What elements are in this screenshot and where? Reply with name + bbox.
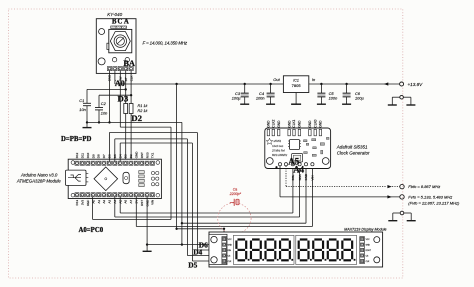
wire D4 to display CLK bbox=[192, 260, 222, 262]
svg-text:IC1: IC1 bbox=[293, 78, 299, 82]
si5351 output slot GND bbox=[298, 129, 300, 136]
svg-text:GND: GND bbox=[228, 245, 233, 247]
Arduino bottom pin RST bbox=[140, 193, 144, 197]
schematic sheet dashed border bbox=[8, 9, 402, 278]
Arduino top pin RX0 bbox=[145, 161, 149, 165]
capacitor C1 10n bbox=[86, 89, 88, 103]
svg-text:R2 1k: R2 1k bbox=[138, 109, 149, 113]
wire 7805 In to +13.8V terminal bbox=[309, 83, 400, 85]
display left hole bottom bbox=[211, 257, 217, 263]
si5351 IC bbox=[290, 140, 300, 150]
junction dot rail/C4 bbox=[269, 83, 271, 85]
svg-text:3V3: 3V3 bbox=[81, 199, 85, 205]
wire encoder CLK down bbox=[130, 71, 132, 104]
wire D5 to display CS bbox=[187, 255, 222, 257]
junction dot rail/C5 bbox=[320, 83, 322, 85]
annotation capacitor Ca (red) bbox=[230, 201, 234, 203]
wire Arduino D5 up bbox=[114, 139, 116, 161]
wire GND to display GND pin bbox=[147, 244, 222, 246]
svg-text:D5: D5 bbox=[188, 260, 197, 269]
display digit 3 bbox=[267, 238, 275, 240]
Arduino Nano module body bbox=[68, 159, 161, 198]
svg-text:C2: C2 bbox=[101, 101, 107, 106]
svg-text:A6: A6 bbox=[124, 199, 128, 203]
display digit 2 bbox=[252, 238, 260, 240]
display right header outline bbox=[360, 237, 365, 264]
si5351 star logo bbox=[266, 138, 273, 144]
capacitor C3 100&#181; bbox=[244, 84, 246, 93]
svg-text:REF: REF bbox=[86, 200, 90, 206]
Arduino bottom pin REF bbox=[86, 193, 90, 197]
wire Arduino D4 up bbox=[119, 143, 121, 161]
wire Fvfo output bbox=[280, 196, 400, 198]
Arduino LEDs / resistors block bbox=[139, 171, 144, 174]
MAX7219 display module board bbox=[209, 232, 383, 267]
wire A5 to SCL bbox=[120, 212, 293, 214]
display digit group 1 frame bbox=[234, 235, 295, 264]
wire R2 to Arduino D2 bbox=[130, 114, 132, 161]
display digit 6 bbox=[314, 238, 322, 240]
display output pin VCC bbox=[361, 237, 364, 240]
display digit 8 bbox=[343, 238, 351, 240]
capacitor C6 100&#181; bbox=[346, 84, 348, 93]
svg-text:Ca: Ca bbox=[233, 187, 238, 191]
Arduino bottom pin A2 bbox=[102, 193, 106, 197]
svg-text:8kHz-160MHz: 8kHz-160MHz bbox=[272, 154, 288, 157]
wire Arduino A0 down bbox=[92, 197, 94, 219]
ground of 7805 bbox=[295, 93, 297, 105]
display digit 5 bbox=[300, 238, 308, 240]
Arduino top pin TX1 bbox=[150, 161, 154, 165]
terminal Fvfo bbox=[400, 195, 404, 199]
display output pin GND bbox=[361, 243, 364, 246]
Arduino mounting hole bbox=[71, 161, 75, 165]
wire A4 to SDA bbox=[115, 216, 300, 218]
svg-text:D11: D11 bbox=[81, 153, 85, 159]
capacitor C2 10n bbox=[98, 95, 100, 107]
wire Arduino A5 down bbox=[119, 197, 121, 213]
si5351 output slot GND bbox=[319, 129, 321, 136]
capacitor C4 100n bbox=[270, 84, 272, 93]
svg-text:100µ: 100µ bbox=[232, 95, 241, 100]
si5351 bottom pad SDA bbox=[298, 163, 301, 166]
display input pin DIN bbox=[223, 248, 226, 251]
Arduino top pin D5 bbox=[113, 161, 117, 165]
arrowhead Fvfo bbox=[387, 195, 392, 198]
svg-text:D9: D9 bbox=[91, 154, 95, 158]
svg-text:100µ: 100µ bbox=[355, 95, 364, 100]
encoder pin GND bbox=[107, 67, 111, 71]
si5351 output slot GND bbox=[278, 129, 280, 136]
svg-text:CLK0: CLK0 bbox=[313, 119, 317, 127]
encoder pin CLK bbox=[129, 67, 133, 71]
Arduino top pin D11 bbox=[80, 161, 84, 165]
svg-text:SDA: SDA bbox=[298, 174, 302, 180]
rotary encoder shaft outer bbox=[114, 35, 126, 47]
Arduino bottom pin A6 bbox=[123, 193, 127, 197]
wire A0 net down bbox=[170, 127, 172, 219]
si5351 mounting hole left bbox=[266, 158, 273, 165]
wire D6 right bbox=[109, 132, 197, 134]
wire 5V branch down bbox=[176, 84, 178, 229]
svg-text:GND: GND bbox=[298, 120, 302, 128]
si5351 output slot GND bbox=[267, 129, 269, 136]
svg-text:RX0: RX0 bbox=[145, 152, 149, 158]
svg-text:C: C bbox=[117, 18, 122, 25]
display input pin GND bbox=[223, 243, 226, 246]
Arduino bottom pin A7 bbox=[129, 193, 133, 197]
junction dot GND/si5351-gnd bbox=[181, 222, 183, 224]
junction dot Arduino GND bbox=[146, 243, 148, 245]
svg-text:D12: D12 bbox=[75, 152, 79, 158]
Arduino bottom pin A4 bbox=[113, 193, 117, 197]
svg-text:GND: GND bbox=[366, 245, 371, 247]
Arduino top pin D6 bbox=[107, 161, 111, 165]
svg-text:D2: D2 bbox=[131, 113, 142, 123]
wire CLK2 output down (dashed) bbox=[285, 166, 287, 187]
svg-text:CLK1: CLK1 bbox=[292, 119, 296, 127]
svg-text:100n: 100n bbox=[329, 95, 338, 100]
wire SW right (A0 net) bbox=[120, 126, 171, 128]
svg-text:RST: RST bbox=[140, 152, 144, 158]
svg-text:25 MHz Ref: 25 MHz Ref bbox=[271, 150, 285, 153]
wire D5 right bbox=[115, 138, 188, 140]
wire A0 to SW net bbox=[93, 218, 172, 220]
Arduino bottom pin VIN bbox=[150, 193, 154, 197]
ground of C4 bbox=[270, 101, 272, 105]
junction dot GND/display-gnd bbox=[181, 243, 183, 245]
ground of Arduino GND bbox=[146, 245, 148, 252]
svg-text:GND: GND bbox=[134, 151, 138, 159]
display input header outline bbox=[222, 237, 227, 264]
display right hole top bbox=[374, 237, 380, 243]
junction dot rail/C6 bbox=[345, 83, 347, 85]
Arduino top pin D2 bbox=[129, 161, 133, 165]
rotary encoder side tab bbox=[107, 43, 109, 49]
rotary encoder hex nut bbox=[110, 32, 130, 51]
svg-text:VIN: VIN bbox=[311, 175, 315, 180]
Arduino top pin D10 bbox=[86, 161, 90, 165]
display right hole bottom bbox=[374, 257, 380, 263]
si5351 crystal bbox=[292, 154, 303, 163]
Arduino mounting hole bbox=[156, 193, 160, 197]
Arduino USB connector bbox=[66, 170, 87, 185]
encoder mounting hole lower bbox=[98, 58, 105, 65]
si5351 output slot CLK1 bbox=[293, 129, 295, 136]
wire 5V to VIN bbox=[136, 226, 312, 228]
wire GND rail down at x=181.9 bbox=[181, 122, 183, 244]
display left hole top bbox=[211, 236, 217, 242]
encoder mounting hole upper bbox=[99, 29, 105, 35]
Arduino MCU chip (diamond) bbox=[94, 167, 118, 191]
svg-text:D13: D13 bbox=[75, 199, 79, 205]
svg-text:CLK2: CLK2 bbox=[272, 119, 276, 127]
svg-text:Out: Out bbox=[273, 77, 280, 82]
encoder switch contact right bbox=[125, 58, 129, 62]
junction dot GND rail / encoder GND bbox=[108, 121, 110, 123]
svg-text:D10: D10 bbox=[86, 152, 90, 158]
svg-text:TX1: TX1 bbox=[151, 152, 155, 158]
Arduino top pin D3 bbox=[123, 161, 127, 165]
svg-text:SCL: SCL bbox=[291, 174, 295, 180]
Arduino top pin D7 bbox=[102, 161, 106, 165]
terminal +13.8V bbox=[400, 82, 404, 86]
display digit 1 bbox=[238, 238, 246, 240]
si5351 output slot CLK0 bbox=[314, 129, 316, 136]
svg-text:DOUT: DOUT bbox=[366, 250, 372, 252]
svg-text:100n: 100n bbox=[256, 95, 265, 100]
svg-text:+13.8V: +13.8V bbox=[408, 82, 424, 87]
si5351 bottom pad 1 bbox=[284, 163, 287, 166]
Arduino top pin GND bbox=[134, 161, 138, 165]
svg-text:Adafruit Si5351: Adafruit Si5351 bbox=[336, 144, 368, 149]
svg-text:ATMEGA328P Module: ATMEGA328P Module bbox=[16, 179, 61, 184]
svg-text:VCC: VCC bbox=[228, 239, 233, 241]
svg-text:10n: 10n bbox=[101, 111, 108, 116]
ground of encoder rail bbox=[86, 122, 88, 127]
wire Arduino GND down bbox=[146, 197, 148, 245]
wire CLK0 output down bbox=[279, 166, 281, 197]
wire R1 to Arduino D3 bbox=[125, 114, 127, 161]
svg-text:KY-040: KY-040 bbox=[107, 12, 122, 17]
wire SCL up to Si5351 bbox=[292, 166, 294, 213]
wire VIN up to Si5351 bbox=[311, 166, 313, 227]
encoder solder pads B C A (hatched) bbox=[111, 26, 127, 29]
svg-text:D3: D3 bbox=[124, 154, 128, 158]
svg-text:Clock Gen: Clock Gen bbox=[272, 145, 284, 148]
svg-text:A4: A4 bbox=[293, 165, 304, 175]
Arduino bottom pin GND bbox=[145, 193, 149, 197]
ground of C3 bbox=[244, 101, 246, 105]
svg-text:GND: GND bbox=[267, 120, 271, 128]
svg-text:Fvfo = 5.133, 5.483 MHz: Fvfo = 5.133, 5.483 MHz bbox=[408, 194, 452, 199]
Arduino top pin RST bbox=[140, 161, 144, 165]
svg-text:Fbfo = 8.867 MHz: Fbfo = 8.867 MHz bbox=[408, 184, 440, 189]
display digit 7 bbox=[329, 238, 337, 240]
Arduino top pin D12 bbox=[75, 161, 79, 165]
Arduino bottom pin A0 bbox=[91, 193, 95, 197]
resistor R2 1k bbox=[129, 104, 133, 114]
wire down to display VCC bbox=[223, 229, 225, 239]
encoder pin SW bbox=[118, 67, 122, 71]
svg-text:si5351: si5351 bbox=[274, 139, 282, 143]
Arduino bottom pin A5 bbox=[118, 193, 122, 197]
si5351 mounting hole right bbox=[322, 158, 329, 165]
junction dot rail/C3 bbox=[244, 83, 246, 85]
display left connector block bbox=[209, 234, 227, 264]
junction dot display VCC branch bbox=[223, 228, 225, 230]
wire Arduino 5V down bbox=[135, 197, 137, 226]
wire Arduino D6 up bbox=[108, 133, 110, 161]
svg-text:GND: GND bbox=[304, 173, 308, 181]
display output pin DOUT bbox=[361, 248, 364, 251]
arrowhead on +13.8V feed bbox=[384, 82, 389, 85]
svg-text:D2: D2 bbox=[129, 154, 133, 158]
svg-text:A0: A0 bbox=[115, 79, 125, 88]
si5351 bottom pad VIN bbox=[311, 163, 314, 166]
wire 5V branch to VCC bbox=[177, 228, 224, 230]
svg-text:GND: GND bbox=[319, 120, 323, 128]
encoder switch contact left bbox=[112, 58, 116, 62]
Arduino bottom pin 5V bbox=[134, 193, 138, 197]
si5351 output slot GND bbox=[288, 129, 290, 136]
svg-text:C1: C1 bbox=[79, 98, 84, 103]
svg-text:VCC: VCC bbox=[366, 239, 371, 241]
svg-text:10n: 10n bbox=[79, 107, 86, 112]
Arduino crystal bbox=[123, 172, 129, 183]
display digit group 2 frame bbox=[296, 235, 357, 264]
rotary encoder body square bbox=[109, 29, 132, 52]
Arduino bottom pin 3V3 bbox=[80, 193, 84, 197]
svg-text:RST: RST bbox=[140, 200, 144, 206]
junction dot 5V rail branch bbox=[175, 83, 177, 85]
wire D5 down bbox=[186, 139, 188, 256]
rotary encoder shaft flat bbox=[117, 38, 124, 45]
svg-text:D7: D7 bbox=[102, 154, 106, 158]
wire D6 down bbox=[196, 133, 198, 251]
wire SDA up to Si5351 bbox=[299, 166, 301, 217]
Arduino bottom pin A3 bbox=[107, 193, 111, 197]
encoder pin + bbox=[113, 67, 117, 71]
wire encoder + pin down to 5V rail bbox=[114, 71, 116, 84]
svg-text:(Fvfo = 22.867, 23.217 MHz): (Fvfo = 22.867, 23.217 MHz) bbox=[408, 201, 460, 206]
Adafruit Si5351 board bbox=[265, 128, 331, 169]
ground of C5 bbox=[320, 101, 322, 105]
junction dot C1/gnd rail bbox=[86, 121, 88, 123]
wire Arduino A4 down bbox=[114, 197, 116, 217]
svg-text:D4: D4 bbox=[193, 247, 202, 256]
junction dot 5V branch corner bbox=[175, 228, 177, 230]
svg-text:D8: D8 bbox=[97, 154, 101, 158]
Arduino top pin D8 bbox=[97, 161, 101, 165]
rotary encoder module KY-040 board bbox=[96, 19, 136, 74]
junction dot CLK/C2 bbox=[130, 94, 132, 96]
voltage regulator IC1 7805 body bbox=[283, 76, 308, 93]
display input pin CS bbox=[223, 254, 226, 257]
wire encoder GND pin down bbox=[109, 71, 111, 123]
capacitor C5 100n bbox=[320, 84, 322, 93]
svg-text:A: A bbox=[124, 18, 129, 25]
wire encoder SW down bbox=[119, 71, 121, 127]
arrowhead Fbfo bbox=[387, 185, 392, 188]
si5351 bottom pad GND bbox=[304, 163, 307, 166]
svg-text:2200p*: 2200p* bbox=[229, 192, 242, 196]
svg-text:B: B bbox=[112, 18, 117, 25]
svg-text:A0: A0 bbox=[91, 199, 95, 203]
wire si5351 GND up bbox=[305, 166, 307, 224]
ground of C6 bbox=[346, 101, 348, 105]
si5351 passives bbox=[304, 140, 308, 142]
display output pin CS bbox=[361, 254, 364, 257]
encoder pin DT bbox=[124, 67, 128, 71]
annotation red dashed circle bbox=[218, 203, 251, 234]
Arduino top pin D4 bbox=[118, 161, 122, 165]
wire D4 right bbox=[120, 142, 192, 144]
svg-text:R1 1k: R1 1k bbox=[138, 104, 149, 108]
svg-text:MAX7219 Display Module: MAX7219 Display Module bbox=[344, 227, 386, 231]
wire Fbfo output (dashed) bbox=[286, 186, 386, 188]
si5351 bottom pad SCL bbox=[291, 163, 294, 166]
junction dot DT/C1 bbox=[125, 88, 127, 90]
chassis ground connector at +13.8V input bbox=[400, 95, 404, 99]
svg-text:A0=PC0: A0=PC0 bbox=[79, 227, 104, 234]
display input pin VCC bbox=[223, 237, 226, 240]
svg-text:A1: A1 bbox=[97, 199, 101, 203]
chassis ground connector at outputs bbox=[400, 211, 404, 215]
svg-text:GND: GND bbox=[308, 120, 312, 128]
display digit 4 bbox=[281, 238, 289, 240]
rotary encoder shaft inner bbox=[116, 37, 124, 45]
resistor R1 1k bbox=[124, 104, 128, 114]
junction dot C2/gnd rail bbox=[98, 121, 100, 123]
wire +5V rail from encoder + pin to 7805 Out bbox=[115, 83, 284, 85]
svg-text:GND: GND bbox=[287, 120, 291, 128]
wire si5351 GND horizontal bbox=[182, 222, 306, 224]
Arduino mounting hole bbox=[71, 193, 75, 197]
svg-text:Clock Generator: Clock Generator bbox=[337, 150, 370, 155]
Arduino bottom pin D13 bbox=[75, 193, 79, 197]
svg-text:F = 14.000, 14.350 MHz: F = 14.000, 14.350 MHz bbox=[143, 40, 188, 45]
Arduino mounting hole bbox=[156, 161, 160, 165]
wire D6 to display DIN bbox=[197, 249, 222, 251]
svg-text:GND: GND bbox=[277, 120, 281, 128]
Arduino bottom pin A1 bbox=[97, 193, 101, 197]
wire D4 down bbox=[191, 143, 193, 261]
display output pin CLK bbox=[361, 259, 364, 262]
svg-text:A2: A2 bbox=[102, 199, 106, 203]
Arduino ISP header bbox=[151, 171, 154, 174]
wire encoder DT down bbox=[125, 71, 127, 104]
svg-text:VIN: VIN bbox=[151, 200, 155, 205]
si5351 bottom pad 0 bbox=[278, 163, 281, 166]
terminal Fbfo bbox=[400, 184, 404, 188]
svg-text:7805: 7805 bbox=[292, 83, 302, 88]
si5351 output slot GND bbox=[309, 129, 311, 136]
wire encoder ground rail bbox=[87, 121, 182, 123]
svg-text:A7: A7 bbox=[129, 199, 133, 203]
svg-text:A3: A3 bbox=[108, 199, 112, 203]
svg-text:D=PB=PD: D=PB=PD bbox=[61, 136, 91, 143]
si5351 output slot CLK2 bbox=[272, 129, 274, 136]
svg-text:Arduino Nano v3.0: Arduino Nano v3.0 bbox=[20, 172, 58, 177]
display input pin CLK bbox=[223, 259, 226, 262]
Arduino top pin D9 bbox=[91, 161, 95, 165]
si5351 pin1 marker dot bbox=[275, 166, 277, 168]
